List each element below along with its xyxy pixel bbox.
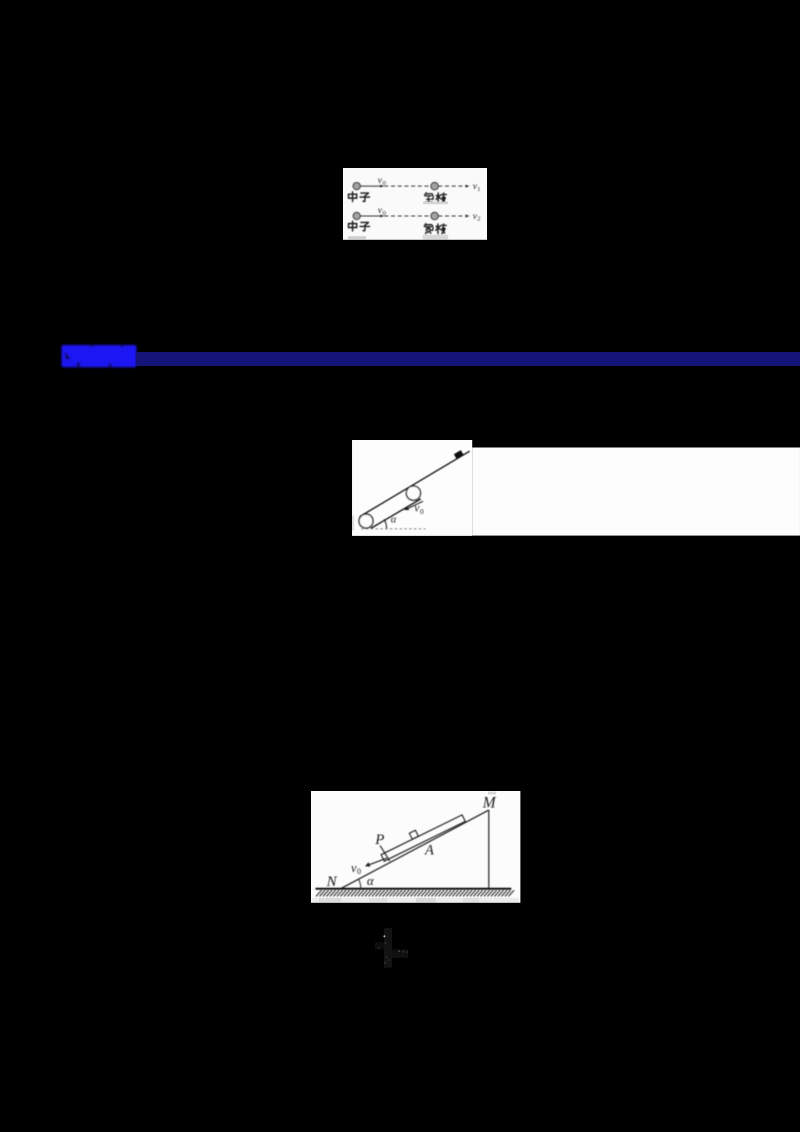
upper roller — [406, 486, 420, 500]
label 中子 row2 — [349, 221, 357, 231]
row1 dashed line to nucleus — [385, 185, 432, 187]
figure: board on incline MNPA (fig3) — [311, 791, 520, 903]
white band to right edge — [472, 447, 800, 535]
dim specks — [385, 942, 387, 944]
P tick mark — [380, 846, 390, 861]
white figure box — [343, 168, 487, 240]
bright dot — [383, 935, 385, 937]
belt lower tangent line — [371, 499, 421, 529]
svg-text:0: 0 — [383, 180, 386, 187]
small block on board — [409, 831, 418, 840]
svg-text:A: A — [424, 843, 434, 859]
svg-text:α: α — [367, 873, 375, 888]
row2 neutron circle — [353, 212, 360, 219]
white figure box — [311, 791, 520, 903]
blue heading: navy bar — [136, 352, 800, 366]
incline hypotenuse N to M — [341, 810, 489, 888]
gray patch band at bottom — [312, 898, 519, 903]
board A on incline — [381, 815, 465, 861]
angle arc alpha — [359, 880, 361, 889]
label 中子 row1 — [349, 192, 357, 202]
svg-text:α: α — [391, 514, 397, 525]
row2 dashed arrow v2 — [439, 215, 467, 217]
row1 dashed arrow v1 — [439, 185, 467, 187]
svg-text:0: 0 — [420, 507, 424, 516]
gray smudge top edge — [488, 792, 496, 795]
dashed ground baseline — [361, 528, 425, 530]
gray underline under 氢核 — [423, 202, 448, 205]
angle arc alpha — [384, 519, 386, 528]
row1 neutron circle — [353, 183, 360, 190]
faint fraction column — [384, 928, 392, 968]
faint horizontal band — [392, 950, 408, 958]
blue heading: bright blue text blob — [52, 340, 152, 372]
row1 nucleus circle — [431, 182, 438, 189]
svg-text:M: M — [482, 795, 497, 812]
ground hatching — [316, 891, 514, 897]
board/incline line tangent over both rollers, with block — [360, 451, 470, 516]
white figure box — [352, 440, 472, 536]
svg-text:1: 1 — [478, 186, 481, 193]
v0 annotation arrow — [408, 501, 423, 508]
row2 wire: solid arrow v0 — [360, 215, 381, 217]
svg-text:0: 0 — [383, 210, 386, 217]
vertical wall under M — [488, 810, 490, 888]
black block on incline — [454, 450, 464, 459]
row2 dashed line — [385, 215, 432, 217]
row1 wire: solid arrow v0 — [360, 185, 381, 187]
row2 nucleus circle — [431, 212, 438, 219]
svg-text:2: 2 — [478, 216, 481, 223]
gray underline under 氮核 row2 — [423, 235, 448, 240]
label 氮核 row2 — [425, 224, 434, 234]
svg-text:P: P — [374, 832, 384, 848]
v0 arrow — [369, 858, 387, 865]
label 氢核 row1 — [425, 193, 434, 203]
figure: conveyor belt on incline (fig2) — [352, 440, 800, 536]
figure: neutron collision diagram (fig1) — [343, 168, 488, 241]
gray underline under 中子 row2 — [348, 236, 366, 239]
svg-text:0: 0 — [357, 867, 361, 876]
ground line — [316, 888, 512, 890]
faint math marks — [373, 918, 415, 978]
gray sliver at left edge — [352, 515, 354, 530]
lower roller — [359, 514, 373, 528]
svg-text:N: N — [326, 875, 338, 891]
